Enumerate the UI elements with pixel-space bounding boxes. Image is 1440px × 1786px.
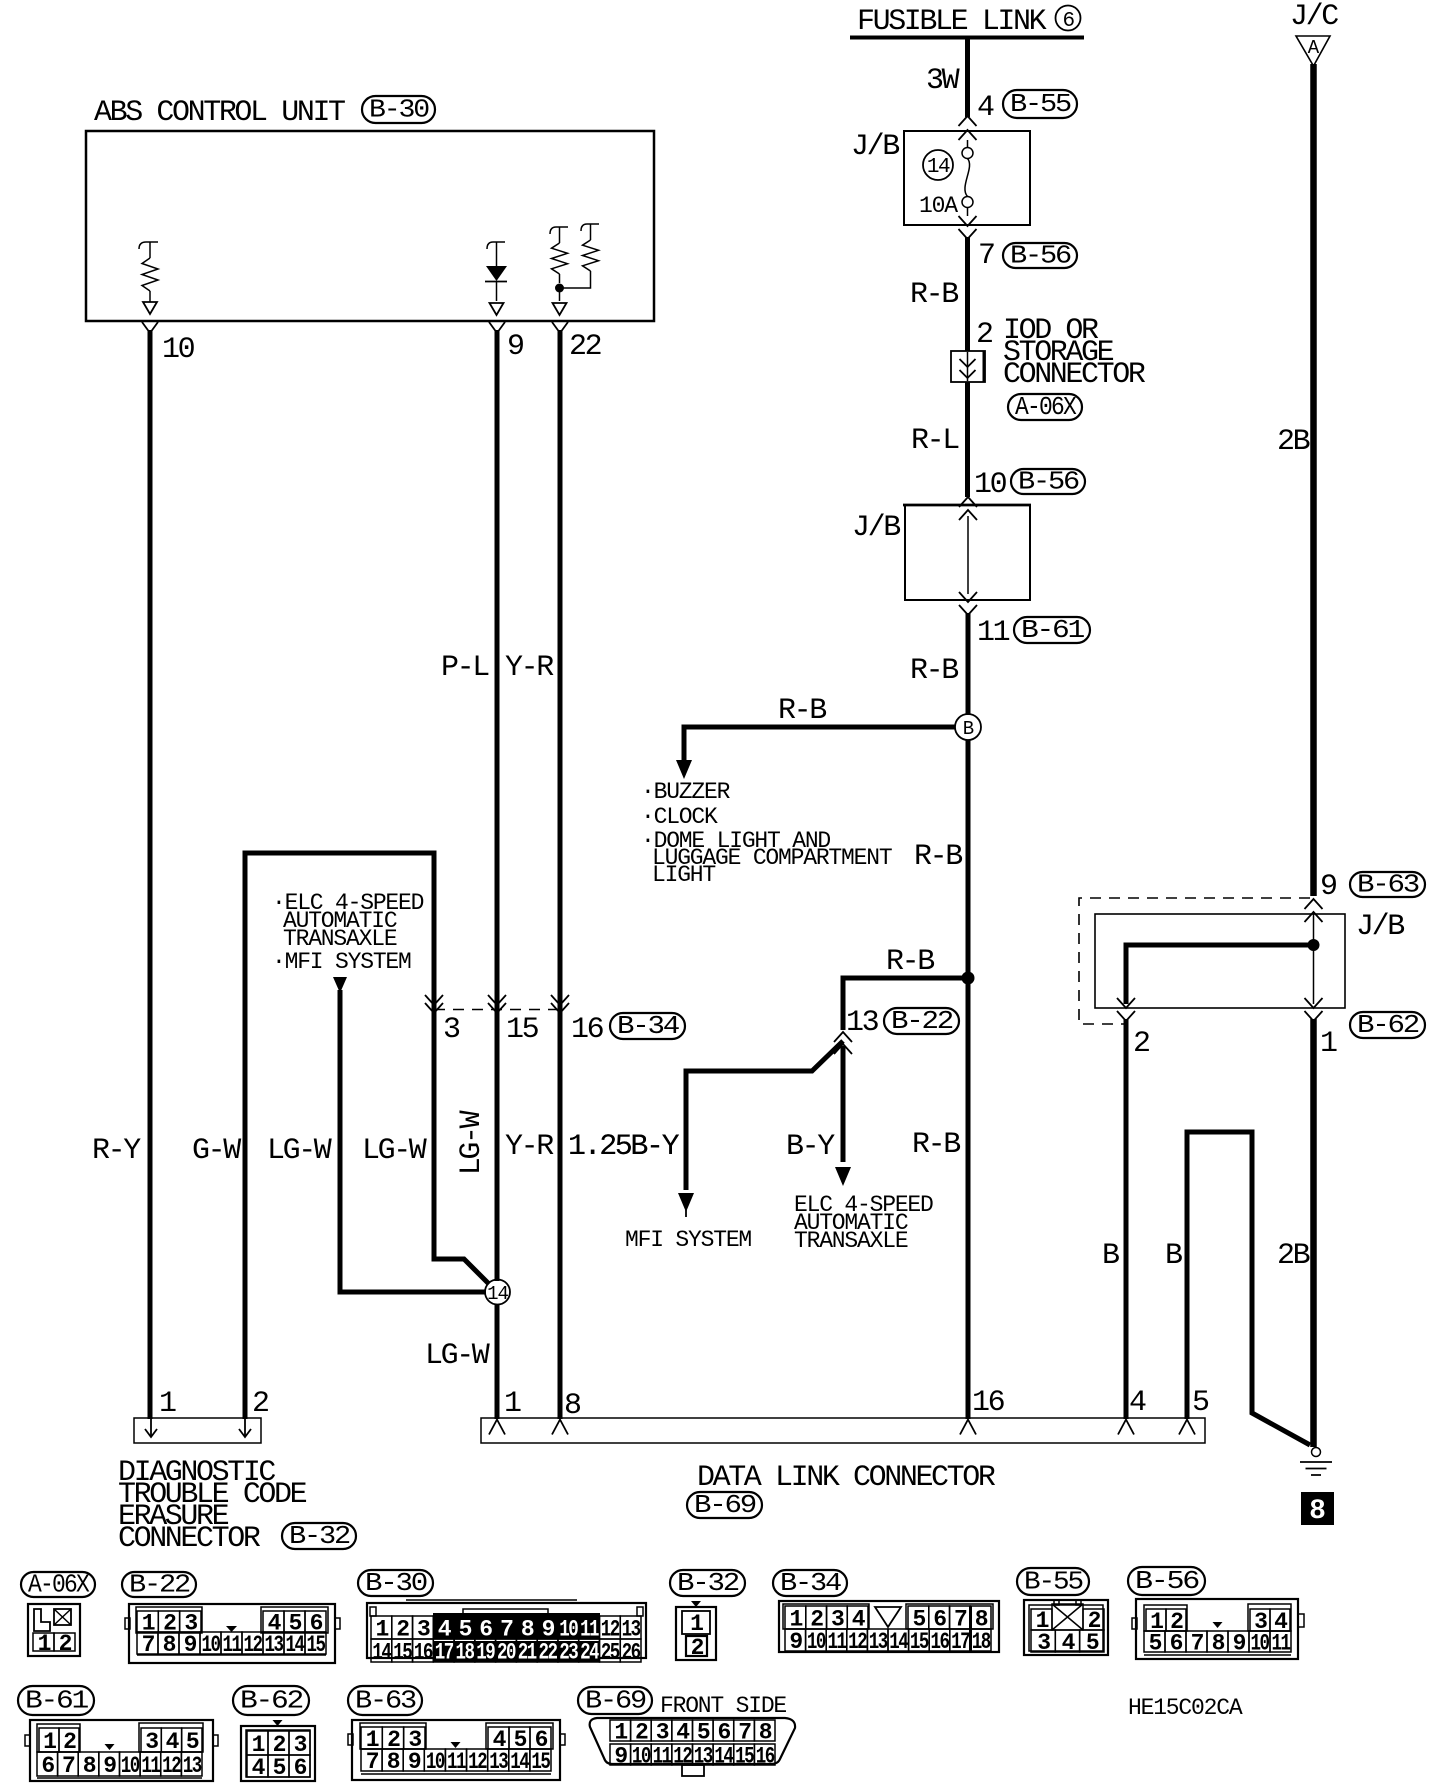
svg-text:8: 8 bbox=[1309, 1496, 1326, 1527]
svg-text:1: 1 bbox=[614, 1720, 627, 1746]
svg-text:2: 2 bbox=[252, 1387, 268, 1421]
svg-text:1: 1 bbox=[38, 1631, 51, 1657]
svg-text:2B: 2B bbox=[1277, 425, 1310, 459]
wire R-B from J/B to IOD connector bbox=[965, 237, 970, 351]
svg-text:23: 23 bbox=[559, 1640, 578, 1666]
svg-text:11: 11 bbox=[1272, 1631, 1291, 1657]
connector pinout A-06X bbox=[21, 1572, 95, 1597]
wire R-B branch to buzzer/clock/dome light bbox=[684, 727, 955, 760]
svg-text:11: 11 bbox=[828, 1629, 847, 1655]
svg-text:14: 14 bbox=[927, 156, 950, 179]
svg-text:B-55: B-55 bbox=[1010, 89, 1070, 119]
svg-text:10: 10 bbox=[121, 1753, 140, 1779]
svg-text:9: 9 bbox=[614, 1744, 627, 1770]
svg-text:A-06X: A-06X bbox=[28, 1570, 90, 1600]
svg-text:G-W: G-W bbox=[192, 1134, 241, 1168]
svg-text:10: 10 bbox=[162, 333, 195, 367]
wire 2B from B-62 pin 1 to ground bbox=[1310, 1019, 1317, 1447]
junction block J/B 2 bbox=[905, 505, 1030, 600]
svg-text:B-30: B-30 bbox=[365, 1568, 426, 1598]
svg-text:8: 8 bbox=[163, 1632, 176, 1658]
svg-text:B-30: B-30 bbox=[369, 95, 428, 125]
svg-text:11: 11 bbox=[223, 1632, 242, 1658]
svg-text:HE15C02CA: HE15C02CA bbox=[1128, 1695, 1243, 1721]
svg-text:11: 11 bbox=[447, 1749, 466, 1775]
svg-text:7: 7 bbox=[62, 1753, 75, 1779]
svg-text:LG-W: LG-W bbox=[425, 1339, 490, 1373]
wire R-Y from ABS pin 10 to diagnostic connector pin 1 bbox=[148, 330, 153, 1419]
svg-text:FRONT SIDE: FRONT SIDE bbox=[660, 1693, 786, 1719]
svg-text:11: 11 bbox=[977, 616, 1010, 650]
svg-text:R-B: R-B bbox=[912, 1128, 960, 1162]
wire B jumper from data link pin 5 to ground bbox=[1187, 1132, 1310, 1445]
svg-text:1: 1 bbox=[690, 1611, 703, 1637]
wire R-B branch to B-22 bbox=[843, 978, 968, 1030]
svg-text:4: 4 bbox=[977, 91, 994, 125]
svg-text:R-B: R-B bbox=[914, 840, 962, 874]
svg-text:·BUZZER: ·BUZZER bbox=[641, 779, 731, 805]
svg-text:6: 6 bbox=[1062, 10, 1074, 33]
svg-text:16: 16 bbox=[972, 1386, 1005, 1420]
svg-text:1: 1 bbox=[1320, 1027, 1337, 1061]
svg-text:2: 2 bbox=[59, 1631, 72, 1657]
svg-text:A: A bbox=[1308, 37, 1320, 59]
svg-text:8: 8 bbox=[83, 1753, 96, 1779]
svg-text:B-61: B-61 bbox=[25, 1686, 89, 1716]
svg-text:13: 13 bbox=[489, 1749, 508, 1775]
junction block J/B 3 bbox=[1095, 914, 1345, 1008]
svg-text:B-63: B-63 bbox=[355, 1686, 415, 1716]
svg-text:LG-W: LG-W bbox=[455, 1110, 489, 1175]
svg-text:8: 8 bbox=[1212, 1631, 1225, 1657]
svg-text:10: 10 bbox=[632, 1744, 651, 1770]
svg-text:B-56: B-56 bbox=[1010, 241, 1070, 271]
svg-text:15: 15 bbox=[307, 1632, 326, 1658]
svg-text:FUSIBLE LINK: FUSIBLE LINK bbox=[857, 5, 1047, 39]
svg-text:9: 9 bbox=[103, 1753, 116, 1779]
svg-text:11: 11 bbox=[653, 1744, 672, 1770]
wire Y-R from ABS pin 22 to data link pin 8 bbox=[558, 330, 563, 1419]
junction block J/B with fuse 14 bbox=[904, 131, 1030, 225]
svg-text:1: 1 bbox=[43, 1729, 56, 1755]
svg-text:R-L: R-L bbox=[911, 424, 959, 458]
connector pinout B-61 bbox=[18, 1686, 94, 1715]
wire fusible link bus bar bbox=[850, 36, 1084, 40]
svg-text:14: 14 bbox=[487, 1283, 508, 1305]
svg-text:5: 5 bbox=[1086, 1630, 1099, 1656]
wire LG-W from splice 14 to data link pin 1 bbox=[495, 1304, 500, 1419]
svg-text:B: B bbox=[963, 718, 974, 740]
svg-text:16: 16 bbox=[756, 1744, 775, 1770]
pin 10 of ABS unit bbox=[142, 322, 158, 333]
svg-text:3: 3 bbox=[656, 1720, 669, 1746]
connector pinout B-62 bbox=[233, 1686, 309, 1715]
svg-text:B-22: B-22 bbox=[891, 1006, 952, 1036]
svg-text:9: 9 bbox=[1320, 870, 1336, 904]
svg-text:7: 7 bbox=[366, 1749, 379, 1775]
svg-text:14: 14 bbox=[714, 1744, 734, 1770]
svg-text:18: 18 bbox=[456, 1640, 475, 1666]
svg-text:15: 15 bbox=[735, 1744, 754, 1770]
svg-text:8: 8 bbox=[387, 1749, 400, 1775]
svg-text:12: 12 bbox=[468, 1749, 487, 1775]
connector B-34 dashed crossing bbox=[434, 1009, 560, 1011]
svg-text:20: 20 bbox=[497, 1640, 516, 1666]
svg-text:1: 1 bbox=[504, 1387, 521, 1421]
data link connector B-69 bbox=[481, 1418, 1205, 1443]
svg-text:B-69: B-69 bbox=[585, 1686, 645, 1716]
svg-text:B-62: B-62 bbox=[1357, 1010, 1418, 1040]
svg-text:15: 15 bbox=[531, 1749, 550, 1775]
resistor pair in ABS unit pin 22 bbox=[550, 227, 568, 234]
svg-text:9: 9 bbox=[184, 1632, 197, 1658]
svg-text:B-56: B-56 bbox=[1135, 1566, 1198, 1596]
svg-text:J/C: J/C bbox=[1290, 0, 1338, 34]
splice B bbox=[955, 714, 981, 740]
connector pinout B-34 bbox=[773, 1570, 847, 1596]
svg-text:8: 8 bbox=[759, 1720, 772, 1746]
svg-text:15: 15 bbox=[506, 1013, 539, 1047]
svg-text:7: 7 bbox=[142, 1632, 155, 1658]
svg-text:7: 7 bbox=[1191, 1631, 1204, 1657]
connector pinout B-30 bbox=[358, 1570, 433, 1596]
svg-text:6: 6 bbox=[717, 1720, 730, 1746]
pin 16 of data link bbox=[960, 1420, 976, 1435]
svg-text:J/B: J/B bbox=[1356, 910, 1404, 944]
svg-text:B-69: B-69 bbox=[694, 1490, 755, 1520]
svg-text:CONNECTOR: CONNECTOR bbox=[118, 1522, 261, 1556]
svg-text:10: 10 bbox=[807, 1629, 826, 1655]
svg-text:7: 7 bbox=[738, 1720, 751, 1746]
pin 1 of data link bbox=[489, 1420, 505, 1435]
svg-text:6: 6 bbox=[41, 1753, 54, 1779]
svg-text:B-63: B-63 bbox=[1357, 870, 1418, 900]
svg-text:TRANSAXLE: TRANSAXLE bbox=[794, 1228, 908, 1254]
svg-text:2: 2 bbox=[635, 1720, 648, 1746]
wire P-L / LG-W from ABS pin 9 to splice 14 bbox=[495, 330, 500, 1281]
svg-text:2: 2 bbox=[691, 1635, 704, 1661]
svg-text:5: 5 bbox=[1149, 1631, 1162, 1657]
svg-text:B-62: B-62 bbox=[240, 1686, 302, 1716]
svg-text:8: 8 bbox=[564, 1389, 581, 1423]
wire 1.25B-Y from B-22 pin 13 to MFI system bbox=[686, 1041, 843, 1190]
svg-text:P-L: P-L bbox=[441, 651, 489, 685]
wire jumper inside J/B 3 bbox=[1126, 945, 1314, 1004]
svg-text:3: 3 bbox=[1037, 1630, 1050, 1656]
svg-text:·MFI SYSTEM: ·MFI SYSTEM bbox=[272, 949, 411, 975]
splice 14 bbox=[485, 1280, 510, 1305]
svg-text:A-06X: A-06X bbox=[1015, 392, 1077, 422]
svg-text:B-32: B-32 bbox=[289, 1521, 349, 1551]
svg-text:4: 4 bbox=[1129, 1386, 1146, 1420]
wire R-B from splice B down to data link pin 16 bbox=[966, 740, 971, 1419]
svg-text:5: 5 bbox=[273, 1755, 286, 1781]
svg-text:17: 17 bbox=[435, 1640, 454, 1666]
svg-text:J/B: J/B bbox=[851, 130, 899, 164]
svg-text:22: 22 bbox=[539, 1640, 558, 1666]
pin 1 connector B-62 bbox=[1305, 998, 1323, 1008]
svg-text:14: 14 bbox=[889, 1629, 909, 1655]
svg-text:B-34: B-34 bbox=[780, 1568, 842, 1598]
connector pinout B-55 bbox=[1017, 1568, 1089, 1595]
pin 8 of data link bbox=[552, 1420, 568, 1435]
svg-text:10: 10 bbox=[1251, 1631, 1270, 1657]
svg-text:12: 12 bbox=[162, 1753, 181, 1779]
pin 9 of ABS unit bbox=[489, 322, 505, 333]
svg-text:Y-R: Y-R bbox=[505, 1130, 554, 1164]
wire B from J/B 3 pin 2 to data link pin 4 bbox=[1124, 1019, 1129, 1419]
svg-text:10: 10 bbox=[974, 468, 1007, 502]
connector pinout B-56 bbox=[1128, 1567, 1205, 1595]
svg-text:2: 2 bbox=[63, 1729, 76, 1755]
svg-text:MFI SYSTEM: MFI SYSTEM bbox=[625, 1227, 751, 1253]
svg-text:B-34: B-34 bbox=[617, 1011, 680, 1041]
wire 3W from fusible link to J/B bbox=[965, 39, 970, 117]
diagnostic trouble code erasure connector B-32 bbox=[134, 1418, 261, 1443]
svg-text:Y-R: Y-R bbox=[505, 651, 554, 685]
svg-text:25: 25 bbox=[601, 1640, 620, 1666]
svg-text:B-55: B-55 bbox=[1024, 1567, 1082, 1597]
pin 22 of ABS unit bbox=[552, 322, 568, 333]
svg-text:15: 15 bbox=[910, 1629, 929, 1655]
svg-text:18: 18 bbox=[972, 1629, 991, 1655]
svg-text:12: 12 bbox=[244, 1632, 263, 1658]
svg-text:2: 2 bbox=[1133, 1027, 1149, 1061]
svg-text:6: 6 bbox=[294, 1755, 307, 1781]
ground ref 8 bbox=[1301, 1492, 1334, 1525]
junction block J/B 3 dashed outline bbox=[1079, 898, 1310, 1024]
pin 2 of J/B 3 bbox=[1117, 998, 1135, 1008]
svg-text:B: B bbox=[1102, 1239, 1119, 1273]
svg-text:B-22: B-22 bbox=[129, 1570, 189, 1600]
wire G-W / LG-W loop from diagnostic pin 2 through B-34 pin 3 to splice 14 bbox=[245, 853, 489, 1419]
svg-text:R-Y: R-Y bbox=[92, 1134, 141, 1168]
svg-text:B-Y: B-Y bbox=[786, 1130, 835, 1164]
fuse 14 10A bbox=[967, 140, 969, 148]
svg-text:B: B bbox=[1165, 1239, 1182, 1273]
svg-text:R-B: R-B bbox=[910, 654, 958, 688]
svg-text:22: 22 bbox=[569, 330, 601, 364]
svg-text:J/B: J/B bbox=[852, 511, 900, 545]
junction dot on R-B wire bbox=[962, 972, 975, 985]
svg-text:9: 9 bbox=[408, 1749, 421, 1775]
svg-text:9: 9 bbox=[1233, 1631, 1246, 1657]
svg-text:CONNECTOR: CONNECTOR bbox=[1003, 358, 1146, 392]
svg-text:B-61: B-61 bbox=[1021, 615, 1085, 645]
connector pinout B-32 bbox=[670, 1570, 745, 1596]
svg-text:R-B: R-B bbox=[778, 694, 826, 728]
svg-text:LIGHT: LIGHT bbox=[652, 862, 715, 888]
svg-text:9: 9 bbox=[507, 330, 523, 364]
svg-text:1.25B-Y: 1.25B-Y bbox=[568, 1130, 680, 1164]
svg-text:15: 15 bbox=[393, 1640, 412, 1666]
svg-text:13: 13 bbox=[846, 1006, 879, 1040]
svg-text:LG-W: LG-W bbox=[362, 1134, 427, 1168]
connector pinout B-63 bbox=[348, 1686, 422, 1715]
svg-text:16: 16 bbox=[414, 1640, 433, 1666]
svg-text:16: 16 bbox=[931, 1629, 950, 1655]
svg-text:6: 6 bbox=[1170, 1631, 1183, 1657]
wire 2B from J/C to B-63 bbox=[1310, 64, 1317, 896]
wire R-B from J/B 2 to splice B bbox=[966, 613, 971, 715]
svg-text:14: 14 bbox=[510, 1749, 530, 1775]
pin 2 of B-32 bbox=[244, 1419, 246, 1437]
connector pinout B-22 bbox=[122, 1572, 196, 1597]
wire B-Y from B-22 pin 13 to ELC transaxle bbox=[841, 1046, 846, 1162]
svg-text:LG-W: LG-W bbox=[267, 1134, 332, 1168]
pin 4 of data link bbox=[1118, 1420, 1134, 1435]
svg-text:14: 14 bbox=[286, 1632, 306, 1658]
svg-text:2: 2 bbox=[976, 318, 992, 352]
svg-text:3W: 3W bbox=[926, 64, 960, 98]
svg-text:5: 5 bbox=[186, 1729, 199, 1755]
svg-text:9: 9 bbox=[789, 1629, 802, 1655]
svg-text:2B: 2B bbox=[1277, 1239, 1310, 1273]
svg-text:R-B: R-B bbox=[910, 278, 958, 312]
svg-text:·CLOCK: ·CLOCK bbox=[641, 804, 718, 830]
svg-text:17: 17 bbox=[951, 1629, 970, 1655]
svg-text:11: 11 bbox=[141, 1753, 160, 1779]
svg-text:26: 26 bbox=[622, 1640, 641, 1666]
svg-text:R-B: R-B bbox=[886, 945, 934, 979]
svg-text:1: 1 bbox=[159, 1387, 176, 1421]
svg-text:12: 12 bbox=[848, 1629, 867, 1655]
svg-text:10: 10 bbox=[202, 1632, 221, 1658]
svg-text:ABS CONTROL UNIT: ABS CONTROL UNIT bbox=[94, 96, 345, 130]
svg-text:10: 10 bbox=[426, 1749, 445, 1775]
svg-text:3: 3 bbox=[145, 1729, 158, 1755]
svg-text:13: 13 bbox=[265, 1632, 284, 1658]
svg-text:B-32: B-32 bbox=[677, 1568, 738, 1598]
svg-text:19: 19 bbox=[476, 1640, 495, 1666]
pin 1 of B-32 bbox=[150, 1419, 152, 1437]
svg-text:21: 21 bbox=[518, 1640, 537, 1666]
svg-text:13: 13 bbox=[183, 1753, 202, 1779]
pin 5 of data link bbox=[1179, 1420, 1195, 1435]
svg-text:24: 24 bbox=[580, 1640, 600, 1666]
svg-text:5: 5 bbox=[1192, 1386, 1209, 1420]
svg-text:14: 14 bbox=[372, 1640, 392, 1666]
svg-text:16: 16 bbox=[571, 1013, 604, 1047]
ground symbol bbox=[1312, 1448, 1321, 1457]
connector pinout B-69 front side bbox=[578, 1687, 652, 1714]
svg-text:10A: 10A bbox=[919, 193, 958, 219]
wire R-L from IOD connector to J/B 2 bbox=[965, 382, 970, 497]
resistor in ABS unit pin 10 bbox=[139, 242, 158, 249]
diode in ABS unit pin 9 bbox=[487, 242, 505, 249]
junction dot in J/B 3 bbox=[1308, 939, 1320, 951]
svg-text:3: 3 bbox=[443, 1013, 460, 1047]
svg-text:5: 5 bbox=[697, 1720, 710, 1746]
svg-text:B-56: B-56 bbox=[1018, 467, 1078, 497]
svg-text:13: 13 bbox=[869, 1629, 888, 1655]
svg-text:7: 7 bbox=[978, 239, 994, 273]
wire LG-W branch from splice 14 to ELC/MFI (arrow up) bbox=[333, 977, 347, 993]
